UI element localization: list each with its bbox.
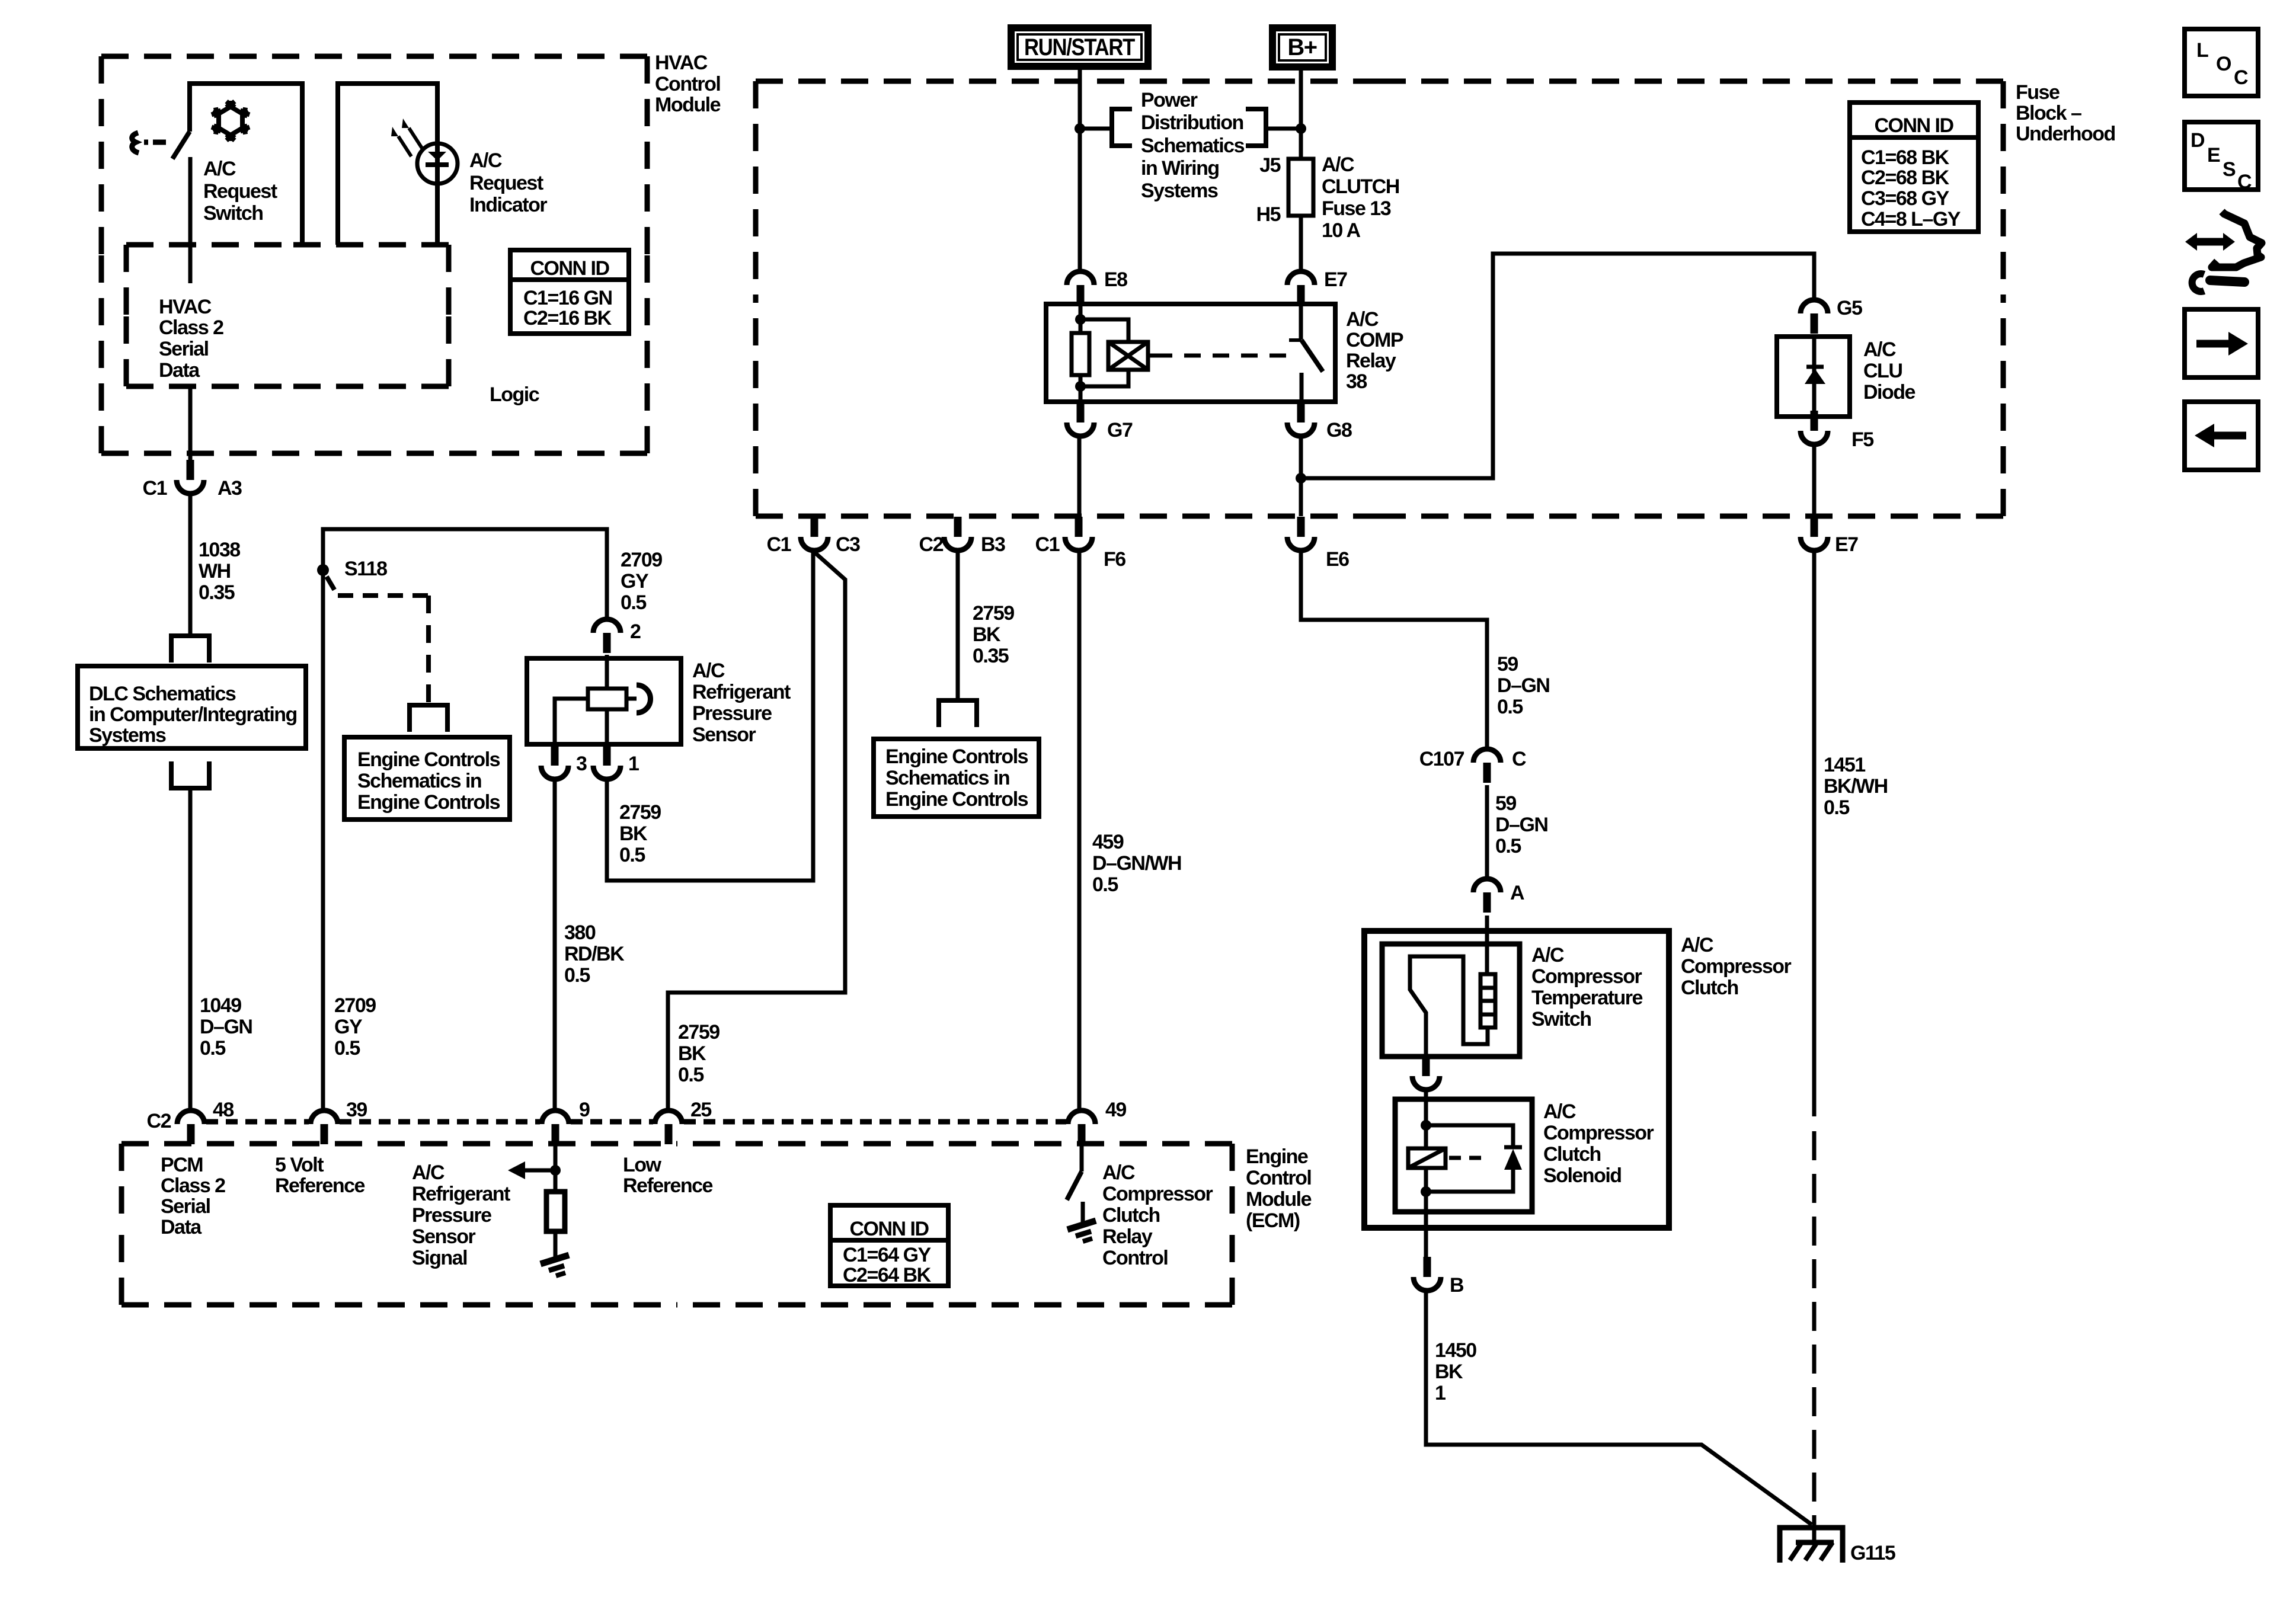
svg-text:Fuse 13: Fuse 13 [1322,197,1391,220]
svg-text:E: E [2207,144,2220,167]
svg-text:A/C: A/C [412,1161,445,1184]
svg-text:C1=68 BK: C1=68 BK [1861,146,1950,169]
svg-text:E6: E6 [1326,548,1349,571]
svg-text:HVAC: HVAC [655,52,708,74]
svg-text:CLUTCH: CLUTCH [1322,175,1399,198]
svg-text:1049: 1049 [200,994,241,1017]
svg-text:A/C: A/C [203,158,236,180]
svg-text:E7: E7 [1324,268,1347,291]
svg-text:25: 25 [690,1099,711,1121]
svg-text:Indicator: Indicator [469,194,547,216]
svg-text:D: D [2191,129,2205,152]
svg-text:(ECM): (ECM) [1246,1209,1300,1232]
svg-text:S118: S118 [344,558,387,580]
svg-text:38: 38 [1346,370,1367,393]
svg-text:A/C: A/C [469,149,502,172]
svg-text:Request: Request [203,180,277,203]
svg-text:C1: C1 [1035,533,1060,556]
svg-text:Class 2: Class 2 [161,1174,225,1197]
svg-text:2709: 2709 [621,549,662,571]
svg-text:Data: Data [161,1216,202,1238]
svg-text:Underhood: Underhood [2016,123,2115,145]
svg-text:Engine Controls: Engine Controls [885,745,1028,768]
svg-text:A: A [1510,882,1524,904]
svg-text:Refrigerant: Refrigerant [692,681,791,703]
svg-text:Reference: Reference [275,1174,365,1197]
svg-text:in Wiring: in Wiring [1141,157,1219,180]
svg-text:O: O [2216,53,2231,75]
svg-text:RD/BK: RD/BK [564,943,625,965]
svg-text:2759: 2759 [973,602,1014,625]
svg-text:A/C: A/C [1531,944,1564,966]
svg-text:HVAC: HVAC [159,296,212,318]
svg-text:F6: F6 [1104,548,1125,571]
svg-text:C: C [1512,748,1526,770]
svg-text:59: 59 [1495,792,1516,815]
svg-text:Signal: Signal [412,1247,467,1269]
svg-text:Temperature: Temperature [1531,987,1643,1009]
svg-text:A/C: A/C [1681,934,1713,956]
svg-text:5 Volt: 5 Volt [275,1154,324,1176]
svg-text:B3: B3 [981,533,1005,556]
svg-text:0.5: 0.5 [200,1037,225,1060]
svg-text:39: 39 [346,1099,367,1121]
svg-text:49: 49 [1105,1099,1126,1121]
svg-text:RUN/START: RUN/START [1024,34,1135,60]
svg-text:Logic: Logic [490,383,539,406]
svg-text:BK/WH: BK/WH [1824,775,1888,798]
svg-text:E7: E7 [1835,533,1858,556]
svg-text:Engine Controls: Engine Controls [357,748,500,771]
svg-text:C1=64 GY: C1=64 GY [843,1244,932,1266]
svg-text:D–GN: D–GN [200,1016,252,1038]
svg-text:B+: B+ [1287,34,1316,60]
svg-text:G7: G7 [1107,419,1133,441]
svg-text:C1: C1 [143,477,167,500]
svg-text:Control: Control [1246,1167,1311,1189]
svg-text:Compressor: Compressor [1681,955,1792,978]
svg-text:0.5: 0.5 [619,844,645,866]
svg-text:CONN ID: CONN ID [530,257,609,280]
svg-text:C2=68 BK: C2=68 BK [1861,167,1950,189]
svg-text:Sensor: Sensor [692,724,756,746]
svg-text:Switch: Switch [1531,1008,1591,1030]
svg-text:C3=68 GY: C3=68 GY [1861,187,1950,210]
svg-text:0.5: 0.5 [1495,835,1521,857]
svg-text:BK: BK [619,822,648,845]
svg-text:Reference: Reference [623,1174,713,1197]
svg-text:D–GN: D–GN [1495,814,1547,836]
svg-text:Module: Module [655,94,721,116]
svg-text:1: 1 [1435,1382,1446,1404]
svg-text:CONN ID: CONN ID [1874,114,1953,137]
svg-text:0.5: 0.5 [1092,873,1118,896]
svg-text:Systems: Systems [1141,180,1218,202]
svg-text:380: 380 [564,921,596,944]
svg-text:D–GN/WH: D–GN/WH [1092,852,1181,875]
svg-text:G8: G8 [1326,419,1352,441]
svg-text:C: C [2237,171,2252,193]
svg-text:0.5: 0.5 [1824,796,1849,819]
svg-text:Pressure: Pressure [692,702,772,725]
svg-text:2: 2 [630,620,641,643]
svg-text:C4=8 L–GY: C4=8 L–GY [1861,208,1961,231]
svg-text:COMP: COMP [1346,329,1403,351]
svg-text:0.5: 0.5 [678,1064,703,1086]
svg-text:G5: G5 [1837,297,1862,319]
svg-text:0.5: 0.5 [564,964,590,987]
svg-text:Solenoid: Solenoid [1543,1164,1622,1187]
svg-text:Diode: Diode [1863,381,1916,404]
svg-text:Relay: Relay [1102,1225,1153,1248]
svg-text:Relay: Relay [1346,350,1396,372]
svg-text:48: 48 [213,1099,234,1121]
svg-text:0.5: 0.5 [621,591,646,614]
svg-text:CONN ID: CONN ID [849,1218,929,1240]
svg-text:A/C: A/C [1863,338,1896,361]
svg-text:CLU: CLU [1863,360,1902,382]
svg-text:Schematics in: Schematics in [885,767,1009,789]
svg-text:PCM: PCM [161,1154,203,1176]
svg-text:Clutch: Clutch [1681,977,1738,999]
svg-text:C2: C2 [147,1110,171,1132]
svg-text:H5: H5 [1256,203,1281,226]
svg-text:Data: Data [159,359,200,382]
svg-text:C2: C2 [919,533,944,556]
svg-text:C1: C1 [767,533,791,556]
svg-text:J5: J5 [1259,154,1280,177]
svg-text:Schematics in: Schematics in [357,770,481,792]
svg-text:Distribution: Distribution [1141,111,1243,134]
svg-text:Systems: Systems [89,724,166,747]
svg-text:Serial: Serial [159,338,209,360]
svg-text:Compressor: Compressor [1102,1183,1213,1205]
svg-text:Schematics: Schematics [1141,135,1245,157]
svg-text:BK: BK [973,623,1001,646]
svg-text:A/C: A/C [692,660,725,682]
svg-text:1: 1 [628,753,639,775]
svg-text:C107: C107 [1419,748,1464,770]
svg-text:Engine Controls: Engine Controls [885,788,1028,811]
svg-text:Module: Module [1246,1188,1312,1211]
svg-text:C1=16 GN: C1=16 GN [523,287,612,309]
svg-text:GY: GY [621,570,649,593]
svg-text:A/C: A/C [1322,153,1354,176]
svg-text:Control: Control [655,73,720,95]
svg-text:9: 9 [579,1099,590,1121]
svg-text:DLC Schematics: DLC Schematics [89,683,236,705]
svg-text:Sensor: Sensor [412,1225,476,1248]
svg-text:10 A: 10 A [1322,219,1361,242]
svg-text:Block –: Block – [2016,102,2081,124]
svg-text:E8: E8 [1104,268,1127,291]
svg-text:C: C [2234,66,2248,89]
svg-text:Request: Request [469,172,543,194]
svg-text:Engine Controls: Engine Controls [357,791,500,814]
svg-text:BK: BK [678,1042,706,1065]
svg-text:Clutch: Clutch [1543,1143,1601,1166]
svg-text:Control: Control [1102,1247,1168,1269]
svg-text:L: L [2196,39,2208,62]
svg-text:A/C: A/C [1543,1100,1576,1123]
svg-text:WH: WH [199,560,231,582]
svg-text:0.5: 0.5 [1497,696,1523,718]
svg-text:0.35: 0.35 [199,581,235,604]
svg-text:2759: 2759 [678,1021,720,1044]
svg-text:459: 459 [1092,831,1124,853]
svg-text:C2=16 BK: C2=16 BK [523,307,612,329]
svg-text:Compressor: Compressor [1531,965,1642,988]
svg-text:Low: Low [623,1154,662,1176]
svg-text:1038: 1038 [199,539,240,561]
svg-text:2709: 2709 [334,994,376,1017]
svg-text:2759: 2759 [619,801,661,824]
svg-text:Refrigerant: Refrigerant [412,1183,510,1205]
svg-text:A/C: A/C [1102,1161,1135,1184]
svg-text:Engine: Engine [1246,1145,1308,1168]
svg-text:Compressor: Compressor [1543,1122,1654,1144]
svg-text:BK: BK [1435,1361,1463,1383]
svg-text:59: 59 [1497,653,1518,676]
svg-text:G115: G115 [1850,1542,1895,1564]
svg-text:S: S [2223,158,2236,181]
svg-text:Switch: Switch [203,202,263,225]
svg-text:Clutch: Clutch [1102,1204,1160,1227]
svg-text:Pressure: Pressure [412,1204,491,1227]
svg-text:Fuse: Fuse [2016,81,2060,104]
svg-text:A/C: A/C [1346,308,1379,331]
svg-text:C3: C3 [836,533,860,556]
svg-text:1451: 1451 [1824,754,1865,776]
svg-text:D–GN: D–GN [1497,674,1549,697]
svg-text:in Computer/Integrating: in Computer/Integrating [89,703,297,726]
svg-text:F5: F5 [1851,428,1873,451]
svg-text:0.35: 0.35 [973,645,1009,667]
svg-text:3: 3 [576,753,587,775]
svg-text:A3: A3 [218,477,242,500]
svg-text:Power: Power [1141,89,1198,111]
svg-text:0.5: 0.5 [334,1037,360,1060]
svg-text:Serial: Serial [161,1195,210,1218]
svg-text:C2=64 BK: C2=64 BK [843,1264,932,1286]
svg-text:Class 2: Class 2 [159,316,223,339]
svg-text:B: B [1450,1274,1464,1297]
svg-text:GY: GY [334,1016,363,1038]
svg-text:1450: 1450 [1435,1339,1476,1362]
